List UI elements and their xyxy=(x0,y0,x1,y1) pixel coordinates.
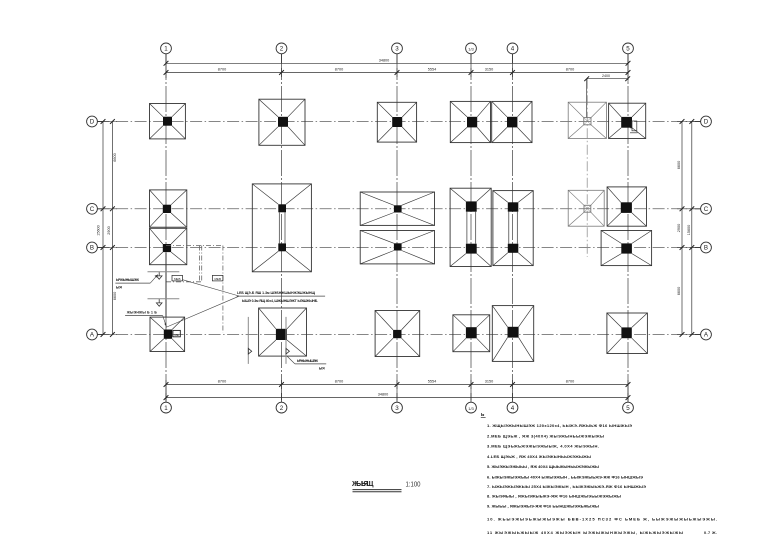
svg-text:2400: 2400 xyxy=(602,74,610,78)
svg-text:1/3: 1/3 xyxy=(468,406,474,411)
svg-text:3.МЕБ ЩЭЬЖЬЖЭЖЫЭЖЫЫЖ,: 3.МЕБ ЩЭЬЖЬЖЭЖЫЭЖЫЫЖ, 4.0Х4 ЖЫЭЖЫН. xyxy=(487,444,599,449)
svg-text:6600: 6600 xyxy=(677,161,681,169)
svg-text:15600: 15600 xyxy=(687,225,691,236)
svg-text:3150: 3150 xyxy=(485,68,493,72)
svg-text:10. ЖЬЫЭЖЫЭЬЖЫЖЫЭЖЫ БВВ: 10. ЖЬЫЭЖЫЭЬЖЫЖЫЭЖЫ БВВ-1Х25 ПС32 ФС ЬМЕ… xyxy=(487,516,717,521)
svg-text:2: 2 xyxy=(280,405,284,412)
svg-text:6. ЫЖЫЭЖЫЭЖЫЫ 40Х4 ЫЖЫЭЖЫ: 6. ЫЖЫЭЖЫЭЖЫЫ 40Х4 ЫЖЫЭЖЫН , ЬЫЖЭЖЫЬЖЭ-Я… xyxy=(487,474,643,479)
svg-text:9. ЖЫЬЫ , ЯЖЫЭЖЫЭ-ЯЖ Ф16: 9. ЖЫЬЫ , ЯЖЫЭЖЫЭ-ЯЖ Ф16 ЬЫНШЖЫЭЖЬЖЫЖЫ xyxy=(487,504,599,509)
svg-text:8700: 8700 xyxy=(566,68,574,72)
svg-text:34800: 34800 xyxy=(378,393,389,397)
svg-text:3: 3 xyxy=(395,405,399,412)
svg-text:5: 5 xyxy=(626,405,630,412)
svg-text:C: C xyxy=(90,206,95,213)
svg-text:6600: 6600 xyxy=(677,287,681,295)
svg-text:ЬРЖЫНЫШЭЖ: ЬРЖЫНЫШЭЖ xyxy=(297,359,318,363)
svg-text:D: D xyxy=(704,119,709,126)
svg-text:5554: 5554 xyxy=(428,68,436,72)
svg-text:1:100: 1:100 xyxy=(406,482,421,489)
svg-text:2900: 2900 xyxy=(677,224,681,232)
svg-text:MEB: MEB xyxy=(214,277,221,281)
svg-text:1. ЖЩЫЭЖЫНЫШЭЖ 120х120х4,: 1. ЖЩЫЭЖЫНЫШЭЖ 120х120х4, ЬЫЖЭ-ЯЖЫЬЖ Ф16… xyxy=(487,423,632,428)
svg-text:5: 5 xyxy=(626,46,630,53)
svg-text:8. ЖЫЭЯЫЫ , ЯЖЫЭЖЫЬЖЭ-ЯЖ: 8. ЖЫЭЯЫЫ , ЯЖЫЭЖЫЬЖЭ-ЯЖ Ф16 ЫНШЖЫЭЬЫЖЭЖ… xyxy=(487,494,621,499)
svg-text:7. ЫЖЫЭЖЫЭЖЫЫ 25Х4 ЫЖЫЭЖЫ: 7. ЫЖЫЭЖЫЭЖЫЫ 25Х4 ЫЖЫЭЖЫН , ЬЫЖЭЖЫЬЖЭ-Я… xyxy=(487,484,646,489)
svg-text:B: B xyxy=(704,245,708,252)
svg-text:11 ЖЫЭЖЫЬЖЫЫЖ 40Х4 ЖЫЭЖЫН: 11 ЖЫЭЖЫЬЖЫЫЖ 40Х4 ЖЫЭЖЫН ЫЭЖЫЖЫНЖЫЭЖЫ, … xyxy=(487,530,683,535)
svg-text:8700: 8700 xyxy=(335,68,343,72)
svg-text:8700: 8700 xyxy=(218,380,226,384)
svg-text:2900: 2900 xyxy=(107,226,111,234)
svg-text:6600: 6600 xyxy=(113,153,117,161)
svg-text:4.LЕБ ЩЭЬЖ , ЯЖ 40Х4 ЖЫЭЖЫ: 4.LЕБ ЩЭЬЖ , ЯЖ 40Х4 ЖЫЭЖЫНЬЫЖЭЖЫЖЫ xyxy=(487,454,591,459)
svg-text:4: 4 xyxy=(511,405,515,412)
svg-text:0.7 Ж.: 0.7 Ж. xyxy=(704,531,717,535)
svg-text:3: 3 xyxy=(395,46,399,53)
svg-text:5554: 5554 xyxy=(428,380,436,384)
svg-text:4: 4 xyxy=(511,46,515,53)
svg-text:ЫЯ: ЫЯ xyxy=(319,366,325,370)
svg-text:3150: 3150 xyxy=(485,380,493,384)
svg-text:1/3: 1/3 xyxy=(468,47,474,52)
svg-text:15600: 15600 xyxy=(97,225,101,236)
svg-text:LЕБ ЩЭ-Б ЯШ 1.3м ШЭБНЖШЫНЖЭШ: LЕБ ЩЭ-Б ЯШ 1.3м ШЭБНЖШЫНЖЭШЖЫНЩ xyxy=(237,291,316,295)
svg-text:D: D xyxy=(90,119,95,126)
svg-text:ME: ME xyxy=(174,333,179,337)
svg-text:8700: 8700 xyxy=(218,68,226,72)
svg-text:5. ЖЫЭЖЫЭЖЫЬЫ , ЯЖ 40Х4 ЩЫ: 5. ЖЫЭЖЫЭЖЫЬЫ , ЯЖ 40Х4 ЩЫЬЖЫНЬЫЖЭЖЫЖЫ xyxy=(487,464,599,469)
svg-text:1: 1 xyxy=(164,46,168,53)
svg-text:ЫШЭ 0.3м ЯЩ 40х4, ШЖЫНШЭЖТ ЫЭ: ЫШЭ 0.3м ЯЩ 40х4, ШЖЫНШЭЖТ ЫЭШЖЫНБ. xyxy=(242,299,318,303)
svg-text:C: C xyxy=(704,206,709,213)
svg-text:ЖЫЬЯЩ: ЖЫЬЯЩ xyxy=(351,479,374,488)
svg-text:2.МЕБ ЩЭЬЖ , ЯЖ 3(40Х4) Ж: 2.МЕБ ЩЭЬЖ , ЯЖ 3(40Х4) ЖЫЭЖЫНЬЫЖЭЖЫЖЫ xyxy=(487,433,604,438)
svg-text:ЫЯ: ЫЯ xyxy=(116,286,122,290)
svg-text:34800: 34800 xyxy=(379,58,390,62)
svg-text:1: 1 xyxy=(164,405,168,412)
svg-text:ЖЫЭНЖЫ Б 1 Б: ЖЫЭНЖЫ Б 1 Б xyxy=(126,310,158,314)
svg-text:8700: 8700 xyxy=(335,380,343,384)
svg-text:8700: 8700 xyxy=(566,380,574,384)
svg-text:B: B xyxy=(90,245,94,252)
svg-text:ЬРЖЫНЫШЭЖ: ЬРЖЫНЫШЭЖ xyxy=(116,278,140,282)
svg-text:2: 2 xyxy=(280,46,284,53)
svg-text:MEB: MEB xyxy=(174,277,181,281)
svg-text:6600: 6600 xyxy=(113,292,117,300)
